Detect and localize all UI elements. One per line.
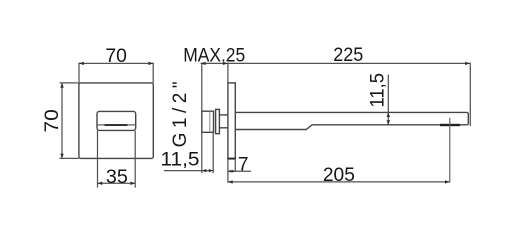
svg-text:11,5: 11,5 [161, 149, 200, 170]
dim 7 plate: arrows [228, 170, 232, 173]
MAX.25 left arrow [201, 62, 206, 65]
svg-text:70: 70 [42, 109, 63, 132]
side view wall plate [228, 83, 235, 159]
pipe to plate (top line) [219, 114, 228, 116]
dim 205: dimension line [228, 181, 450, 183]
dim 35: arrows [98, 182, 103, 185]
threaded inlet body [202, 111, 214, 132]
dim 70 top: arrows [79, 62, 84, 65]
dim 205: arrows [228, 180, 233, 183]
outlet aerator slot [440, 124, 460, 126]
ext line at inlet face [201, 63, 203, 111]
thread line [209, 111, 211, 132]
dim 35: extension lines [97, 131, 99, 188]
top dimension line (MAX.25 + 225) [201, 62, 470, 64]
dim 11,5 arm: arrows [387, 112, 390, 117]
spout arm outline [235, 112, 468, 129]
svg-text:11,5: 11,5 [367, 73, 388, 108]
ext line at arm tip [469, 63, 471, 126]
spout outlet slot [105, 124, 128, 126]
dim 11,5 thread: dimension line [164, 170, 213, 172]
pipe to plate (bottom line) [219, 127, 228, 129]
dim 11,5 arm height: dimension line [387, 75, 389, 125]
dim 70 left: arrows [60, 83, 63, 88]
dim 35: dimension line [98, 182, 136, 184]
dim 11,5 thread: extension lines [201, 133, 203, 174]
dim 70 top: dimension line [79, 62, 153, 64]
dim 70 top: extension lines [78, 63, 80, 83]
dim 70 left: extension lines [60, 82, 79, 84]
svg-text:205: 205 [323, 165, 355, 186]
svg-text:35: 35 [106, 167, 128, 188]
dim 70 left: dimension line [61, 83, 63, 158]
225 right arrow [465, 62, 470, 65]
plate bottom edge emphasis [227, 158, 235, 160]
svg-text:70: 70 [105, 46, 127, 67]
front plate square [79, 83, 153, 158]
junction double arrow [223, 62, 228, 65]
svg-text:225: 225 [333, 45, 363, 66]
inlet flange [216, 109, 220, 133]
dim 11,5 thread: arrows [202, 169, 206, 172]
spout outlet line [98, 124, 136, 126]
svg-text:MAX.25: MAX.25 [183, 45, 245, 67]
ext line at plate front face [227, 63, 229, 83]
dim 7 plate: dimension line [228, 170, 251, 172]
svg-text:7: 7 [238, 154, 249, 175]
outlet centre line [449, 118, 451, 183]
spout front body [97, 111, 136, 130]
dim 7 plate: extension lines [227, 159, 229, 183]
